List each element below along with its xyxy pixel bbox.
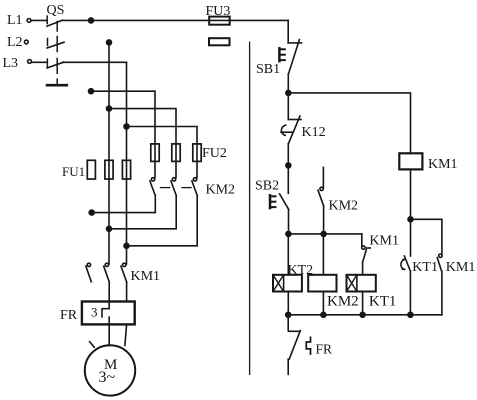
svg-text:KM1: KM1 [446,260,476,275]
svg-text:QS: QS [47,3,65,18]
svg-text:FU1: FU1 [62,164,85,179]
svg-text:FU2: FU2 [202,146,227,161]
svg-text:SB1: SB1 [256,62,280,77]
svg-text:FU3: FU3 [206,4,231,19]
svg-text:L1: L1 [7,13,23,28]
svg-text:KM2: KM2 [327,294,359,310]
svg-text:KM2: KM2 [206,183,236,198]
svg-text:FR: FR [60,308,78,323]
svg-text:KM1: KM1 [428,157,458,172]
svg-text:KM1: KM1 [369,233,399,248]
svg-text:3: 3 [91,305,98,320]
svg-text:KM2: KM2 [329,199,359,214]
svg-text:L3: L3 [3,56,19,71]
svg-text:KT1: KT1 [369,294,397,310]
svg-text:KT2: KT2 [288,263,314,278]
svg-text:SB2: SB2 [255,179,279,194]
svg-text:3~: 3~ [99,369,116,386]
svg-text:K12: K12 [302,125,326,140]
svg-text:FR: FR [316,341,333,356]
svg-text:KT1: KT1 [412,260,438,275]
svg-text:KM1: KM1 [131,269,161,284]
svg-text:L2: L2 [7,35,23,50]
